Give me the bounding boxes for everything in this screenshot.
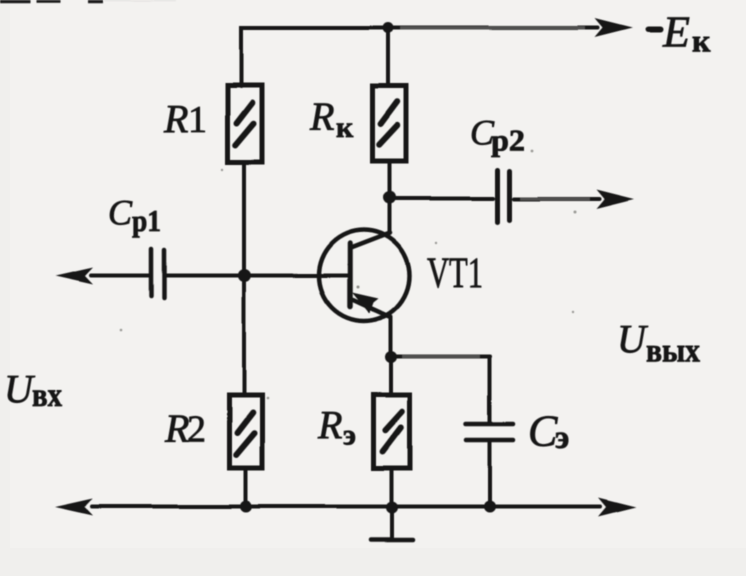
svg-text:R: R [163, 97, 188, 142]
svg-text:C: C [528, 407, 558, 456]
svg-text:U: U [617, 317, 649, 362]
svg-text:вх: вх [32, 377, 62, 414]
svg-text:R: R [317, 403, 342, 448]
svg-text:к: к [692, 23, 711, 59]
svg-text:R: R [309, 94, 334, 139]
svg-text:к: к [336, 111, 354, 144]
svg-text:э: э [555, 420, 569, 456]
svg-text:VT1: VT1 [427, 250, 483, 297]
svg-text:э: э [343, 419, 356, 452]
svg-text:2: 2 [187, 409, 206, 451]
svg-text:вых: вых [646, 333, 700, 370]
svg-text:p2: p2 [491, 123, 525, 158]
svg-text:p1: p1 [132, 203, 161, 238]
svg-text:E: E [662, 8, 690, 57]
svg-text:1: 1 [188, 99, 207, 141]
svg-text:C: C [108, 193, 133, 233]
svg-text:R: R [164, 406, 189, 451]
